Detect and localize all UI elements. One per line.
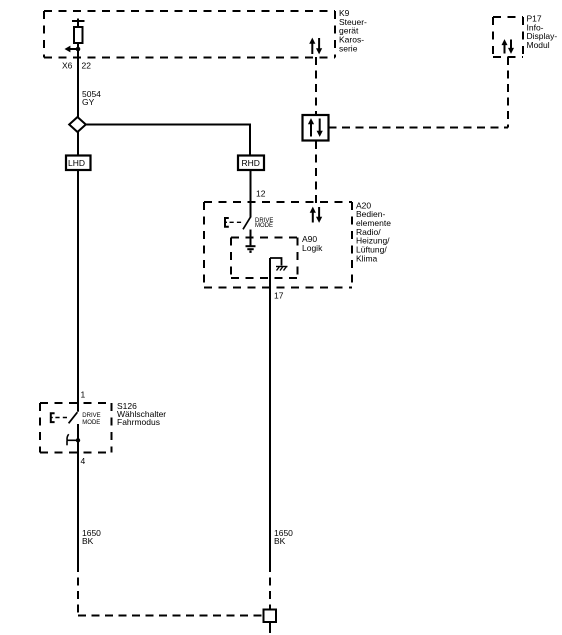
display module box P17 (dashed) — [493, 17, 523, 57]
left wire dashed section to square — [77, 564, 79, 616]
ground symbol (A20) — [246, 246, 256, 252]
svg-text:X6: X6 — [62, 61, 73, 71]
detent actuator (S126) — [67, 434, 78, 445]
svg-text:BK: BK — [82, 536, 94, 546]
gateway box (bus junction) — [303, 115, 329, 141]
P17 label — [527, 13, 558, 50]
svg-text:12: 12 — [256, 189, 266, 199]
bus arrows in A20 — [310, 207, 323, 223]
wire stub below square — [269, 622, 271, 633]
bus arrows in gateway box — [308, 118, 323, 137]
wire: RHD down to A20 pin 12 — [250, 170, 252, 218]
wire: resistor to diamond — [77, 43, 79, 118]
splice diamond — [69, 117, 86, 132]
svg-text:4: 4 — [81, 456, 86, 466]
right wire dashed section — [269, 564, 271, 609]
svg-text:Klima: Klima — [356, 253, 378, 263]
svg-text:Modul: Modul — [527, 40, 550, 50]
junction dot at arrow branch — [76, 47, 81, 52]
supply terminal in K9 — [72, 19, 85, 28]
A90 output bend wire — [270, 258, 282, 266]
svg-text:MODE: MODE — [82, 420, 100, 426]
bus arrows in P17 — [502, 39, 515, 54]
switch lever (A20 drive mode) — [243, 217, 250, 229]
option box LHD — [66, 156, 91, 171]
arrow to left (circuit continues) — [69, 48, 78, 50]
wire: switch to ground (A20) — [250, 230, 252, 247]
ground connector square — [264, 610, 277, 623]
wire: LHD down to S126 — [77, 170, 79, 404]
svg-text:Logik: Logik — [302, 243, 323, 253]
svg-text:GY: GY — [82, 97, 95, 107]
wire into S126 — [77, 404, 79, 412]
wire: switch down through box — [77, 424, 79, 564]
K9 label — [339, 8, 367, 53]
ECU box K9 (dashed) — [44, 11, 335, 58]
svg-text:RHD: RHD — [242, 158, 260, 168]
bus wire: P17 down leg — [507, 57, 509, 128]
wire: diamond to LHD box — [77, 132, 79, 155]
wire: A90 bend to pin 17 and down — [269, 258, 271, 564]
switch actuator E (S126) — [51, 413, 55, 422]
svg-text:17: 17 — [274, 291, 284, 301]
switch actuator E (A20) — [225, 218, 229, 227]
svg-text:MODE: MODE — [255, 223, 273, 229]
resistor R in K9 — [74, 27, 83, 43]
svg-text:BK: BK — [274, 536, 286, 546]
chassis ground (A90 internal) — [276, 267, 288, 271]
svg-text:Fahrmodus: Fahrmodus — [117, 417, 160, 427]
svg-text:1: 1 — [81, 390, 86, 400]
svg-text:serie: serie — [339, 43, 358, 53]
option box RHD — [238, 156, 264, 171]
svg-text:22: 22 — [82, 61, 92, 71]
bus wire: K9 to gateway box — [315, 57, 317, 114]
logic box A90 (dashed) — [231, 238, 298, 279]
bus wire: gateway to A20 — [315, 141, 317, 203]
A20 label — [356, 200, 391, 263]
module box A20 (dashed) — [204, 202, 352, 288]
bus arrows in K9 — [309, 38, 322, 55]
svg-text:DRIVE: DRIVE — [82, 413, 100, 419]
bus wire: gateway to P17 (horizontal) — [329, 127, 509, 129]
svg-text:LHD: LHD — [68, 158, 85, 168]
wire: diamond branch to RHD — [86, 125, 250, 156]
switch box S126 (dashed) — [40, 403, 112, 453]
switch lever (S126 drive mode) — [69, 412, 78, 423]
